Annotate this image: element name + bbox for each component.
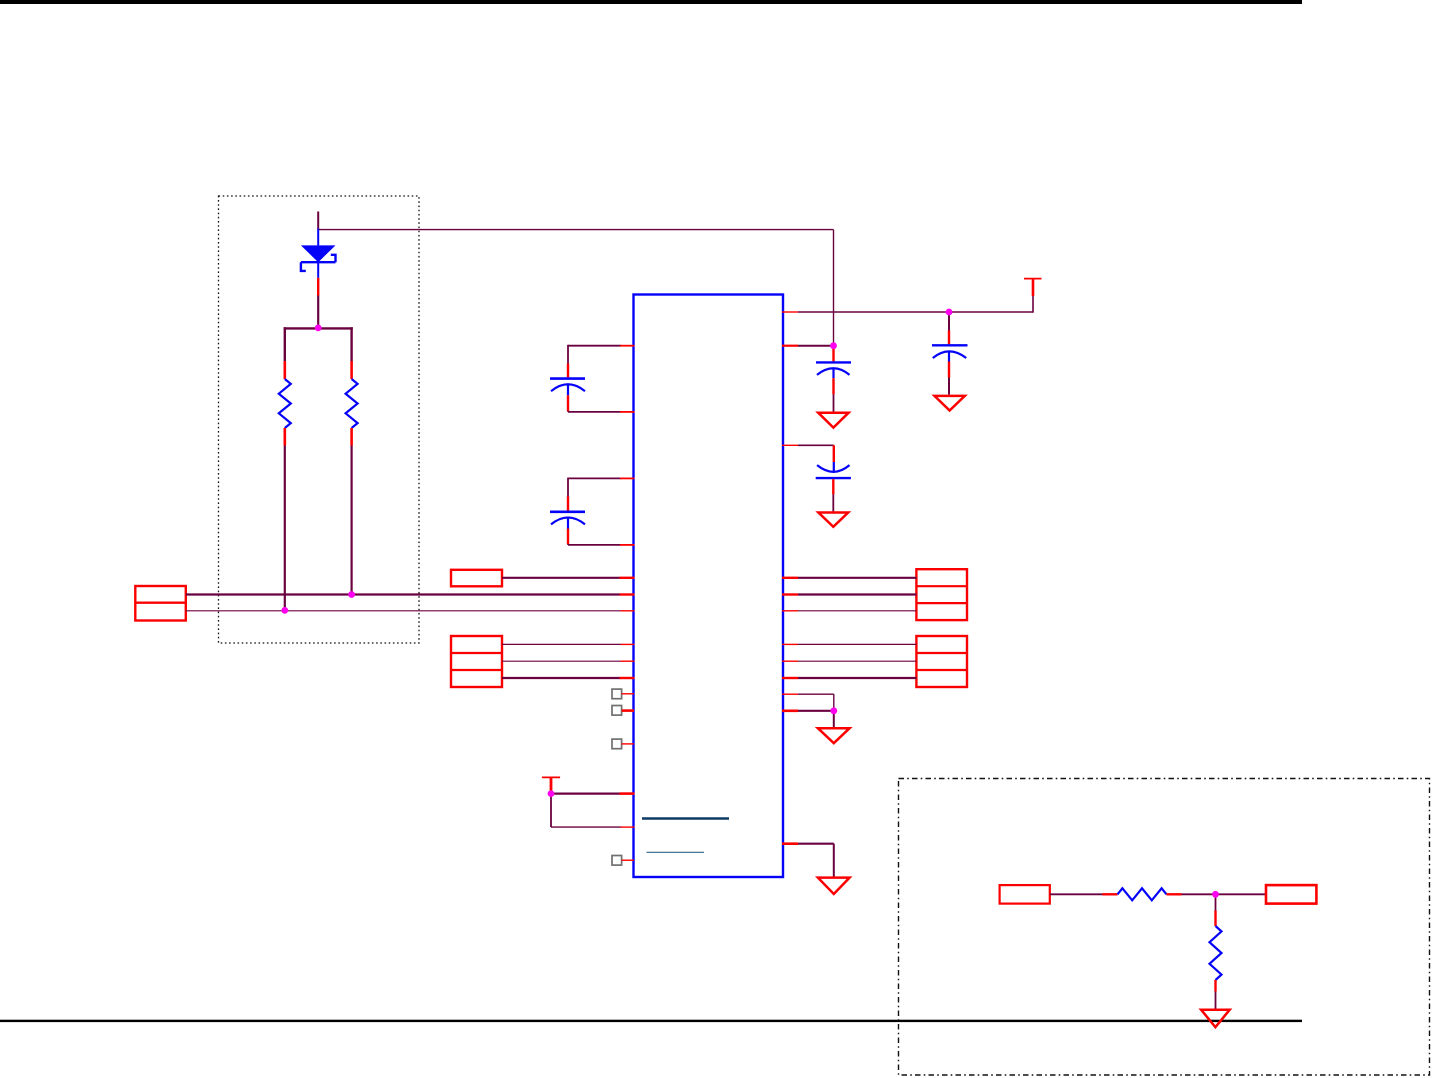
wire VDD to U1 pin xyxy=(551,792,635,794)
ground symbol (C5) xyxy=(818,513,848,527)
diode D1 (TVS zener) xyxy=(301,229,336,278)
wire U1 to J5 pin1 xyxy=(782,643,916,645)
dash-dot enclosure box (bottom-right) xyxy=(899,779,1430,1076)
op-amp U1 IC body xyxy=(634,295,784,878)
wire resistor header bar xyxy=(284,327,353,329)
wire J3 pin2 to U1 xyxy=(502,660,635,662)
capacitor C4 xyxy=(932,312,968,395)
connector J7 (bottom-right right port) xyxy=(1266,885,1316,904)
wire J3 pin1 to U1 xyxy=(502,643,635,645)
wire C2 top to U1 xyxy=(568,477,635,479)
resistor R3 (series) xyxy=(1118,888,1167,900)
wire VDD loop to U1 lower pin xyxy=(551,826,635,828)
node divider junction xyxy=(1212,891,1219,898)
ground symbol (EP) xyxy=(818,878,850,894)
wire U1 to J5 pin2 xyxy=(782,660,916,662)
wire C1 top to U1 xyxy=(568,345,635,347)
connector J5 (right lower three-row port) xyxy=(916,636,967,687)
wire top horizontal diode to VCC node xyxy=(318,229,833,231)
wire vertical down to VCC junction xyxy=(833,230,835,346)
ground symbol (U1 GND) xyxy=(818,728,850,743)
ground symbol (C4) xyxy=(935,396,965,411)
wire junction to ground xyxy=(833,711,835,728)
no-connect square pin 2 xyxy=(612,706,634,716)
capacitor C5 (reversed) xyxy=(816,445,851,512)
connector J2 (single-row port) xyxy=(451,570,502,587)
connector J6 (bottom-right left port) xyxy=(1000,885,1050,904)
diode D1 cathode pin stub xyxy=(317,278,319,296)
node R2/bus A junction xyxy=(348,591,355,598)
wire C1 bottom to U1 xyxy=(568,411,635,413)
no-connect square pin 1 xyxy=(612,689,634,699)
wire U1 GND loop upper xyxy=(782,694,834,711)
capacitor C1 (left upper bypass) xyxy=(550,345,585,412)
no-connect square pin 3 xyxy=(612,739,634,749)
wire U1 to J4 pin1 xyxy=(782,577,916,579)
wire VDD loop down xyxy=(550,794,552,828)
node VCC rail / C4 junction xyxy=(946,309,953,316)
connector J1 (left two-row port) xyxy=(135,586,186,621)
wire R3 to node xyxy=(1167,893,1267,895)
wire U1 GND pin xyxy=(782,709,834,712)
ground symbol (divider) xyxy=(1201,1010,1230,1027)
no-connect square pin 4 xyxy=(612,856,634,866)
wire stub above diode node xyxy=(317,212,319,230)
wire J3 pin3 to U1 xyxy=(502,677,635,679)
connector J4 (right upper three-row port) xyxy=(916,569,967,620)
wire U1 VCC pin to junction xyxy=(782,345,834,347)
wire U1 to J5 pin3 xyxy=(782,677,916,679)
wire bus A (J1 pin1 to U1) xyxy=(186,593,635,595)
resistor R4 (shunt to ground) xyxy=(1210,894,1222,1009)
power symbol VDD (left) xyxy=(542,777,560,793)
node R1/bus B junction xyxy=(281,607,288,614)
wire U1 to VCC rail (right top) xyxy=(782,296,1033,313)
dotted enclosure box (top-left) xyxy=(219,196,420,643)
wire U1 to J4 pin3 xyxy=(782,610,916,612)
wire U1 to J4 pin2 xyxy=(782,593,916,595)
bottom bus line xyxy=(0,1020,1302,1022)
connector J3 (left three-row port) xyxy=(451,636,502,687)
wire diode to resistor header xyxy=(317,296,319,330)
ground symbol (C3) xyxy=(818,413,848,428)
node diode/resistor junction xyxy=(315,325,322,332)
wire C2 bottom to U1 xyxy=(568,544,635,546)
top title bar xyxy=(0,0,1302,4)
node GND junction xyxy=(830,707,837,714)
wire J2 to U1 xyxy=(502,577,635,579)
node VDD junction xyxy=(548,790,555,797)
capacitor C2 (left lower bypass) xyxy=(550,478,585,545)
resistor R2 (right branch) xyxy=(346,327,358,594)
capacitor C3 xyxy=(816,347,851,412)
wire bus B (J1 pin2 to U1) xyxy=(186,610,635,612)
wire J6 to R3 xyxy=(1050,893,1118,895)
power symbol VCC (right) xyxy=(1024,279,1042,296)
U1 internal bar 2 xyxy=(647,851,705,853)
node VCC pin junction xyxy=(830,342,837,349)
U1 internal bar 1 xyxy=(642,817,729,819)
wire U1 to C5 xyxy=(782,444,834,446)
wire U1 EP pad to ground xyxy=(782,844,834,877)
resistor R1 (left branch) xyxy=(279,327,291,610)
